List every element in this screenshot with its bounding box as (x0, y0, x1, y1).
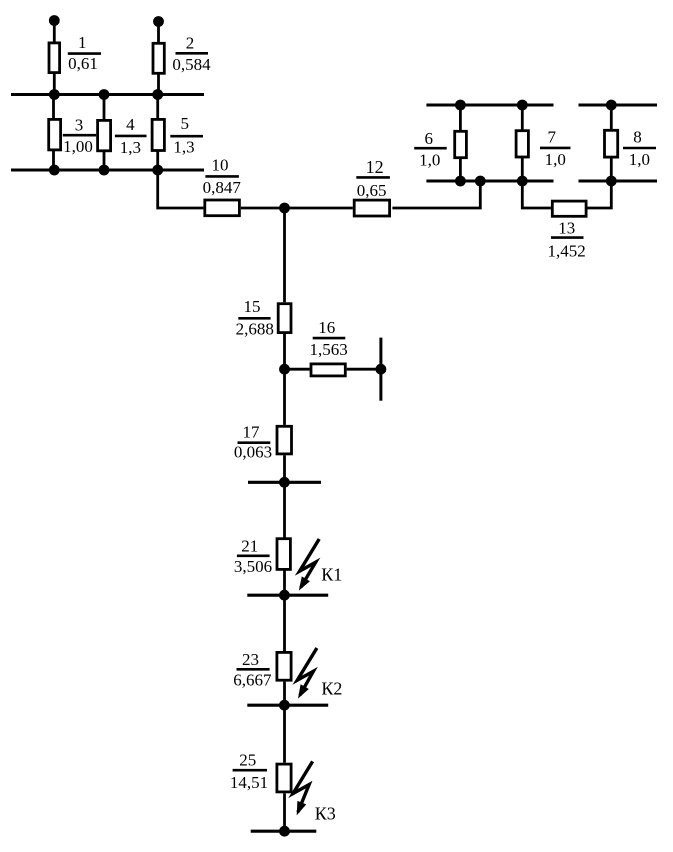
svg-text:7: 7 (547, 128, 556, 147)
svg-text:6,667: 6,667 (233, 670, 272, 689)
svg-text:1,00: 1,00 (63, 137, 93, 156)
node upper bus at R6 (455, 100, 466, 111)
svg-text:0,584: 0,584 (172, 55, 211, 74)
label R4 value 4/1,3 (120, 115, 141, 157)
wire: node to R21 (283, 482, 286, 539)
svg-text:1,3: 1,3 (120, 138, 141, 157)
label R2 value 2/0,584 (172, 34, 211, 74)
label R17 value 17/0,063 (234, 422, 272, 461)
wire: R10 to center junction (241, 207, 285, 210)
label R3 value 3/1,00 (63, 115, 93, 156)
wire: node to R16 (285, 368, 310, 371)
node lower bus at R8 (606, 176, 617, 187)
svg-text:1,563: 1,563 (309, 340, 347, 359)
node K1 (279, 590, 290, 601)
node below R17 (279, 477, 290, 488)
node: source terminal dot above R2 (153, 16, 164, 27)
node K2 (279, 700, 290, 711)
wire: lower-right bus left segment (426, 180, 553, 183)
node upper bus at R7 (517, 100, 528, 111)
node K3 bottom (279, 826, 290, 837)
wire: lower-left bus (11, 169, 204, 172)
fault arrow K3 (293, 761, 313, 815)
node at R16 terminal (376, 364, 387, 375)
wire: R16 to right terminal (347, 368, 381, 371)
resistor R10 (205, 200, 240, 216)
svg-text:1,452: 1,452 (547, 241, 585, 260)
svg-text:25: 25 (239, 750, 256, 769)
resistor R23 (277, 652, 291, 680)
fault arrow K1 (299, 539, 319, 591)
wire: R17 to node bar 1 (283, 455, 286, 482)
resistor R4 (98, 120, 111, 150)
wire: R25 to bottom node (283, 793, 286, 831)
wire: upper-left bus (11, 93, 204, 96)
resistor R17 (277, 426, 292, 454)
wire: R21 to node K1 (283, 569, 286, 595)
svg-text:2: 2 (186, 34, 195, 53)
node upper bus at R8 (606, 100, 617, 111)
node: center junction (279, 203, 290, 214)
svg-text:23: 23 (242, 650, 259, 669)
svg-text:6: 6 (425, 129, 434, 148)
node on lower bus at R4 (99, 165, 110, 176)
svg-text:10: 10 (212, 155, 229, 174)
label R21 value 21/3,506 (234, 536, 272, 575)
label R7 value 7/1,0 (545, 128, 566, 169)
node lower bus at riser from R12 (475, 176, 486, 187)
node: source terminal dot above R1 (49, 15, 60, 26)
label R15 value 15/2,688 (236, 297, 274, 338)
resistor R3 (49, 119, 61, 149)
wire: R23 to node K2 (283, 682, 286, 706)
label R23 value 23/6,667 (233, 650, 272, 689)
svg-text:21: 21 (241, 536, 258, 555)
svg-text:14,51: 14,51 (230, 773, 268, 792)
node on lower bus at R5 (152, 165, 163, 176)
resistor R8 (605, 130, 618, 157)
wire: R13 right connection (587, 181, 611, 208)
resistor R6 (455, 131, 467, 157)
svg-text:К1: К1 (321, 564, 342, 584)
label R5 value 5/1,3 (173, 114, 194, 156)
svg-text:12: 12 (366, 157, 384, 177)
resistor R25 (277, 764, 291, 792)
resistor R16 (311, 364, 345, 376)
resistor R1 (49, 43, 60, 73)
wire: center junction down to R15 (283, 208, 286, 302)
node on upper bus at R2/R5 (152, 89, 163, 100)
svg-text:1,0: 1,0 (419, 150, 440, 169)
resistor R12 (354, 200, 389, 216)
node lower bus at R7 (517, 176, 528, 187)
svg-text:К3: К3 (315, 803, 336, 823)
svg-text:16: 16 (318, 318, 335, 337)
resistor R7 (516, 131, 528, 157)
label R12 value 12/0,65 (357, 157, 387, 200)
svg-text:1,3: 1,3 (173, 137, 194, 156)
label R13 value 13/1,452 (547, 219, 585, 261)
node on upper bus at R1/R3 (49, 89, 60, 100)
wire: R2 branch vertical (157, 22, 160, 95)
svg-text:8: 8 (633, 127, 642, 146)
wire: junction to R12 (285, 207, 353, 210)
resistor R5 (152, 119, 164, 150)
svg-text:4: 4 (126, 115, 135, 134)
wire: R1 branch vertical (53, 21, 56, 95)
label R8 value 8/1,0 (629, 127, 650, 169)
resistor R13 (552, 201, 586, 216)
svg-text:13: 13 (558, 219, 575, 238)
wire: R13 left connection (522, 181, 551, 208)
bar at node K1 (247, 594, 328, 597)
bar at node below R17 (248, 481, 321, 484)
svg-text:0,65: 0,65 (357, 181, 387, 200)
svg-text:1,0: 1,0 (545, 150, 566, 169)
svg-text:0,063: 0,063 (234, 442, 272, 461)
fault arrow K2 (297, 648, 317, 699)
bar at bottom node K3 (251, 830, 317, 833)
label R25 value 25/14,51 (230, 750, 268, 792)
svg-text:3,506: 3,506 (234, 557, 272, 576)
wire: R12 to right network riser (392, 181, 480, 208)
label R1 value 1/0,61 (68, 33, 98, 73)
label R16 value 16/1,563 (309, 318, 347, 359)
wire: R6 branch vertical (459, 105, 462, 181)
wire: node K2 to R25 (283, 705, 286, 763)
wire: node K1 to R23 (283, 595, 286, 651)
svg-text:1: 1 (78, 33, 87, 52)
svg-text:К2: К2 (321, 678, 342, 698)
svg-text:3: 3 (75, 115, 84, 134)
wire: R4 branch vertical (103, 95, 106, 171)
resistor R15 (278, 304, 291, 333)
label R10 value 10/0,847 (203, 155, 242, 197)
node: tap junction below R15 (279, 364, 290, 375)
wire: R3 branch vertical (52, 95, 55, 171)
label R6 value 6/1,0 (419, 129, 440, 170)
svg-text:1,0: 1,0 (629, 150, 650, 169)
node on lower bus at R3 (49, 165, 60, 176)
bar at node K2 (247, 704, 328, 707)
resistor R2 (153, 43, 164, 73)
svg-text:0,847: 0,847 (203, 178, 242, 197)
svg-text:0,61: 0,61 (68, 54, 98, 73)
svg-text:2,688: 2,688 (236, 320, 274, 339)
resistor R21 (277, 539, 290, 570)
wire: R5 branch vertical (156, 95, 159, 171)
svg-text:17: 17 (243, 422, 261, 441)
wire: R7 branch vertical (521, 105, 524, 181)
svg-text:5: 5 (181, 114, 190, 133)
wire: R15 to node (283, 333, 286, 369)
wire: R8 branch vertical (610, 105, 613, 181)
wire: node to R17 (283, 369, 286, 425)
wire: lower-right bus right segment (579, 180, 658, 183)
node on upper bus at R4 (99, 89, 110, 100)
wire: upper-right bus left segment (426, 104, 553, 107)
svg-text:15: 15 (244, 297, 261, 316)
wire: upper-right bus right segment (579, 104, 658, 107)
node lower bus at R6 (455, 176, 466, 187)
terminal bar right of R16 (379, 338, 382, 401)
wire: drop from lower-left bus to main line (158, 170, 204, 208)
